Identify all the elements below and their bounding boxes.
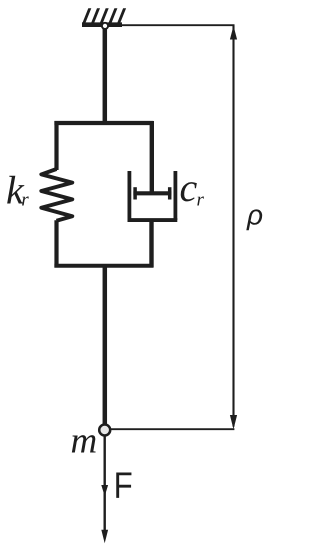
pin joint circle at support (102, 23, 108, 29)
damper piston left end tick (133, 187, 137, 199)
mass node circle m (99, 425, 110, 436)
lower rod (wire from box to mass) (103, 264, 108, 425)
damper rod (right branch from top bar to piston) (150, 121, 154, 193)
label rho (246, 209, 262, 230)
force arrowhead F (101, 485, 108, 496)
left branch lower wire (54, 220, 58, 267)
ceiling extension line to dimension corner (120, 24, 235, 26)
label F (116, 472, 131, 497)
dimension top arrowhead (up) (230, 26, 237, 40)
hatching of fixed support (82, 8, 126, 24)
dimension bottom arrowhead (down) (230, 415, 237, 429)
dimension line rho (vertical) (232, 25, 234, 426)
bottom bar of parallel branch box (54, 264, 153, 268)
damper cylinder left wall (127, 171, 131, 220)
label m (72, 435, 96, 452)
spring k_r zigzag (41, 169, 72, 221)
horizontal reference line from mass to dimension line (111, 428, 235, 430)
damper cylinder bottom (128, 218, 178, 222)
force line below mass (103, 437, 105, 532)
end arrowhead of force axis (101, 530, 108, 544)
damper cylinder right wall (173, 171, 177, 220)
damper piston right end tick (168, 187, 172, 199)
upper rod (wire from support to parallel box) (103, 27, 108, 125)
damper lower wire (cylinder to bottom bar) (149, 220, 153, 268)
left branch upper wire (54, 121, 58, 170)
fixed support ceiling bar (82, 22, 122, 27)
label c_r (181, 182, 197, 201)
damper piston bar (133, 191, 171, 195)
label k_r (7, 176, 24, 204)
top bar of parallel branch box (54, 121, 153, 125)
